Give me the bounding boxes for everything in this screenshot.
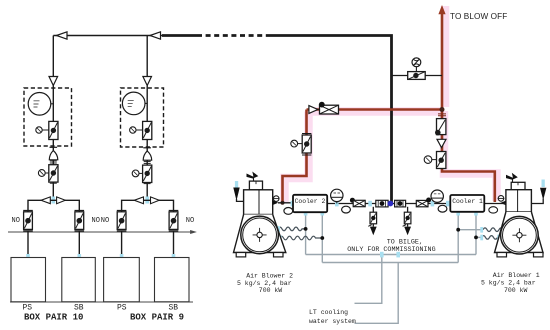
svg-text:SB: SB [169, 304, 179, 313]
highlight glow along red discharge piping [285, 6, 497, 203]
reducer bell pair 10 [49, 151, 58, 160]
flow arrow left on supply line near pair 9 [150, 32, 161, 39]
cooler 2 box [293, 195, 327, 212]
arrow: to blow off [438, 5, 445, 14]
wire: thick main air line solid part [162, 34, 197, 37]
bilge branch left [368, 207, 376, 236]
box PS of pair 10 [11, 258, 46, 302]
reducer on blow off riser [437, 139, 446, 147]
svg-text:700 kW: 700 kW [259, 287, 283, 294]
node: box3 inlet highlight [120, 254, 124, 261]
svg-text:Air Blower 1: Air Blower 1 [493, 272, 540, 279]
wire: pair 10 split header [28, 200, 79, 211]
intake arrow blower 2 [235, 181, 238, 188]
svg-text:NO: NO [186, 217, 194, 225]
wire: LT drop 2 [355, 263, 399, 324]
svg-text:NO: NO [92, 217, 100, 225]
wire: cooler 2 drain b [321, 212, 323, 262]
svg-text:TO BLOW OFF: TO BLOW OFF [450, 12, 507, 21]
butterfly valve on blow off header [309, 102, 339, 114]
node highlight: cooler1 port b [474, 210, 478, 216]
wire: pair 9 riser [146, 36, 148, 201]
wire: valve to box4 [173, 231, 175, 258]
flow arrow down into pair 9 box [143, 77, 152, 86]
discharge nozzle blower 1 [500, 201, 506, 206]
svg-text:NO: NO [12, 217, 20, 225]
node: box2 inlet highlight [78, 254, 82, 261]
svg-text:5 kg/s 2,4 bar: 5 kg/s 2,4 bar [237, 280, 292, 287]
pipe: blower1 discharge run [442, 110, 495, 203]
wire: valve to box2 [78, 231, 80, 258]
shutoff valve manifold left [376, 200, 388, 207]
top box blower 2 [249, 181, 262, 190]
wire: hose feed blower 1 upper [458, 229, 483, 231]
blow off line flanges [438, 114, 446, 116]
relief valve PSV [408, 58, 426, 80]
box PS of pair 9 [104, 258, 140, 302]
node highlight: cooler1 port a [456, 210, 460, 216]
dashed enclosure pair 10 [24, 88, 72, 146]
instrument PT pair 9 [122, 92, 147, 115]
node: box4 inlet highlight [172, 254, 176, 261]
wire: cooler 1 riser b [475, 212, 477, 254]
cooler 1 box [450, 195, 484, 212]
svg-text:BOX PAIR 9: BOX PAIR 9 [130, 313, 184, 323]
svg-text:water system: water system [309, 318, 356, 325]
feet blower 2 [236, 253, 246, 257]
wire: thick main air line dashed part [197, 34, 270, 37]
flow arrow right on pair 9 header [151, 197, 160, 204]
drain ellipse cooler 2 left [284, 208, 293, 215]
vent symbol blower 1 [512, 178, 514, 183]
svg-text:Cooler 2: Cooler 2 [295, 198, 326, 205]
wire: cooling supply bus [306, 254, 476, 256]
body blower 2 [244, 190, 273, 215]
valve V1 in pair 10 enclosure [36, 121, 58, 139]
body blower 1 [506, 190, 532, 212]
shutoff valve manifold right [395, 200, 406, 207]
drain ellipse blower 1 [489, 207, 498, 213]
wire: cooling return bus [322, 262, 458, 264]
box SB of pair 10 [62, 258, 96, 302]
dashed enclosure pair 9 [121, 88, 164, 147]
node: blow off junction [440, 107, 445, 112]
wire: valve to box3 [121, 231, 123, 258]
wire: valve to box1 [27, 231, 29, 258]
svg-text:PS: PS [23, 304, 33, 313]
svg-text:LT cooling: LT cooling [309, 309, 348, 316]
hose blower1 lower (wavy) [482, 236, 500, 240]
svg-text:SB: SB [74, 304, 84, 313]
valve NO box2 [75, 211, 85, 231]
node: box1 inlet highlight [26, 254, 30, 261]
flow arrow right on pair 10 header [57, 197, 66, 204]
node highlight: cooler2 port a [304, 210, 308, 216]
top box blower 1 [511, 182, 525, 189]
drain ellipse manifold right [438, 205, 447, 212]
valve NO box1 [23, 211, 33, 231]
wire: manifold line cooler2 to cooler1 [327, 203, 450, 205]
junction dots on cooling loop [304, 227, 308, 231]
drain ellipse manifold left [342, 206, 351, 213]
LT cooling water loop gray piping [306, 212, 483, 323]
valve V3 below pair 10 enclosure [38, 165, 58, 184]
svg-text:BOX PAIR 10: BOX PAIR 10 [24, 313, 83, 323]
shutoff valve on blow off riser [424, 152, 446, 169]
wire: pair 9 split header [122, 200, 174, 211]
butterfly valve manifold right [416, 198, 431, 207]
hose blower1 upper (wavy) [483, 228, 505, 232]
valve V4 below pair 9 enclosure [132, 165, 152, 184]
wire: hose feed blower 1 lower [476, 236, 482, 238]
node highlight: drop2 crossing [396, 252, 400, 258]
control valve on blow off riser [435, 119, 446, 136]
svg-text:Cooler 1: Cooler 1 [452, 198, 483, 205]
node highlight: hose ends [277, 226, 280, 232]
feet blower 1 [497, 253, 507, 257]
wire: LT drop 1 [355, 255, 382, 304]
impeller blower 1 [501, 216, 539, 254]
instrument gauge left of manifold [331, 189, 343, 203]
casing blower 2 [234, 215, 286, 253]
node: main junction dot [388, 201, 394, 207]
svg-text:PS: PS [117, 304, 127, 313]
flow arrow left on supply line near pair 10 [57, 32, 68, 39]
pipe: blower2 discharge riser [283, 110, 307, 203]
pipe: blow off header [307, 108, 443, 111]
intake arrow blower 1 [542, 180, 545, 188]
box SB of pair 9 [155, 258, 190, 302]
reducer bell pair 9 [143, 151, 152, 160]
wire: cooler 2 drain a [305, 212, 307, 254]
casing blower 1 [495, 212, 544, 253]
flow arrow down into pair 10 box [49, 77, 58, 86]
hose blower2 upper (wavy) [278, 227, 306, 231]
pipe: blow off riser [441, 13, 444, 110]
wire: pair 10 riser [52, 36, 54, 201]
flange ticks below pair 10 enclosure [50, 146, 58, 148]
node: base line under boxes [10, 301, 193, 303]
valve on blower2 riser [291, 134, 312, 156]
instrument gauge right of manifold [431, 190, 443, 204]
valve NO box4 [169, 211, 179, 231]
svg-text:Air Blower 2: Air Blower 2 [246, 272, 293, 279]
wire: thin supply line from pair 10 corner to pair 9 junction [53, 35, 162, 37]
node: pair 10 split tee highlight [52, 197, 56, 204]
node highlight: drop1 crossing [380, 252, 384, 258]
wire: thick main air line to downcomer [270, 36, 392, 204]
node highlight: manifold ticks [335, 201, 339, 207]
flange ticks below pair 9 enclosure [143, 147, 151, 149]
node: pair 9 split tee highlight [145, 197, 149, 204]
impeller blower 2 [241, 216, 279, 254]
svg-text:700 kW: 700 kW [504, 287, 528, 294]
instrument PT pair 10 [28, 93, 53, 116]
flow arrow left on pair 10 header [41, 197, 50, 204]
node: deck boundary thin line [8, 231, 191, 233]
wire: cooler 1 riser a [457, 212, 459, 262]
relief line from main to blow off riser [392, 75, 443, 77]
valve NO box3 [117, 211, 127, 231]
svg-text:NO: NO [101, 217, 109, 225]
node: blower2 discharge junction [281, 201, 285, 205]
bilge branch right [403, 207, 411, 236]
flow arrow left on pair 9 header [134, 197, 143, 204]
svg-text:ONLY FOR COMMISSIONING: ONLY FOR COMMISSIONING [347, 246, 435, 254]
node highlight: cooler2 port b [321, 210, 325, 216]
valve V2 in pair 9 enclosure [130, 121, 152, 139]
discharge nozzle blower 2 [273, 200, 279, 205]
vent symbol blower 2 [253, 177, 255, 182]
butterfly valve manifold left [350, 198, 365, 207]
svg-text:5 kg/s 2,4 bar: 5 kg/s 2,4 bar [481, 280, 536, 287]
hose blower2 lower (wavy) [280, 236, 323, 240]
